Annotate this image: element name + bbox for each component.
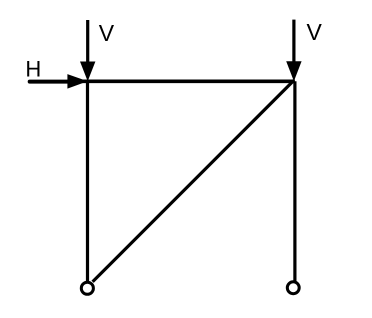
right support circle: [287, 282, 299, 294]
load arrow H (horizontal force): [30, 74, 88, 89]
svg-text:V: V: [307, 19, 323, 45]
load arrow V2 (right vertical force): [286, 20, 301, 82]
load arrow V1 (left vertical force): [80, 20, 95, 81]
left support circle: [81, 282, 93, 294]
svg-text:V: V: [99, 20, 115, 46]
svg-text:H: H: [25, 57, 41, 82]
right column member: [293, 81, 296, 281]
beam (top horizontal member): [68, 80, 295, 84]
left column member: [86, 81, 89, 281]
diagonal brace member: [93, 80, 294, 281]
